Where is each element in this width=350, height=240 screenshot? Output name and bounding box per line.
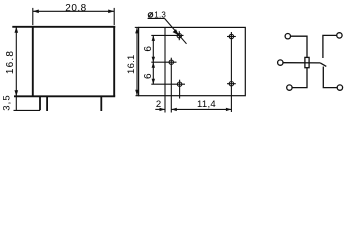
relay body outline (left view): [12, 26, 115, 96]
left edge: [32, 26, 34, 96]
hole middle-left with crosshair and extension down: [169, 58, 173, 113]
extension line middle hole row: [151, 61, 176, 63]
svg-text:2: 2: [156, 99, 161, 110]
pin 1 (left view): [39, 97, 41, 110]
hole top-left with crosshair: [177, 31, 181, 40]
svg-text:6: 6: [143, 73, 154, 79]
svg-text:20.8: 20.8: [65, 3, 86, 14]
switch arm: [320, 63, 326, 67]
terminal bottom-left: [287, 85, 292, 90]
extension line top hole row: [151, 34, 183, 36]
dimension 20.8 line with arrows: [33, 10, 114, 14]
wire NC contact: [323, 35, 337, 58]
extension line for 2 dim (vertical, from box top): [164, 27, 166, 112]
svg-text:16.1: 16.1: [126, 54, 137, 74]
pin bottom extension line: [14, 109, 41, 111]
dimension 16.1 extension ticks: [135, 26, 139, 28]
schematic: coil K: [305, 57, 309, 67]
svg-text:3,5: 3,5: [2, 94, 13, 111]
svg-text:6: 6: [143, 46, 154, 52]
pin 2 (left view): [46, 97, 48, 111]
dimension 16.1 line with arrows: [135, 27, 139, 95]
wire NO contact: [323, 67, 337, 88]
wire from coil bottom to bottom-left terminal: [292, 68, 307, 88]
wire from top-left terminal to coil top: [291, 36, 308, 57]
dimension 6 upper line with arrows: [152, 35, 155, 62]
terminal bottom-right (NO): [337, 85, 342, 90]
extension line bottom hole row: [151, 83, 185, 85]
hole top-right with crosshair: [227, 34, 236, 38]
hole bottom-right with crosshair: [227, 82, 236, 86]
dimension 6 lower line with arrows: [152, 62, 155, 84]
terminal top-right (NC): [337, 33, 342, 38]
dimension 3.5 line: [15, 97, 17, 110]
terminal top-left: [285, 34, 290, 39]
svg-text:16.8: 16.8: [5, 50, 16, 74]
dimension 16.8 line with arrows: [14, 27, 18, 97]
svg-text:11,4: 11,4: [197, 99, 216, 110]
label phi 1.3 with leader arrow: [148, 11, 187, 44]
dimension 20.8 extension lines: [32, 8, 34, 25]
pin 3 (left view): [100, 97, 102, 111]
bottom dimension line (2 and 11.4): [155, 108, 231, 111]
terminal middle-left (common): [278, 60, 283, 65]
right edge: [113, 26, 115, 96]
hole bottom-left with crosshair and stub down: [177, 80, 181, 99]
vertical line linking right holes, extending down: [230, 32, 232, 112]
bottom (body base) edge with left extension: [14, 95, 115, 97]
pcb layout box (middle view): [139, 27, 246, 95]
top edge with left extension: [12, 26, 115, 28]
wire common to switch pivot: [283, 62, 320, 64]
